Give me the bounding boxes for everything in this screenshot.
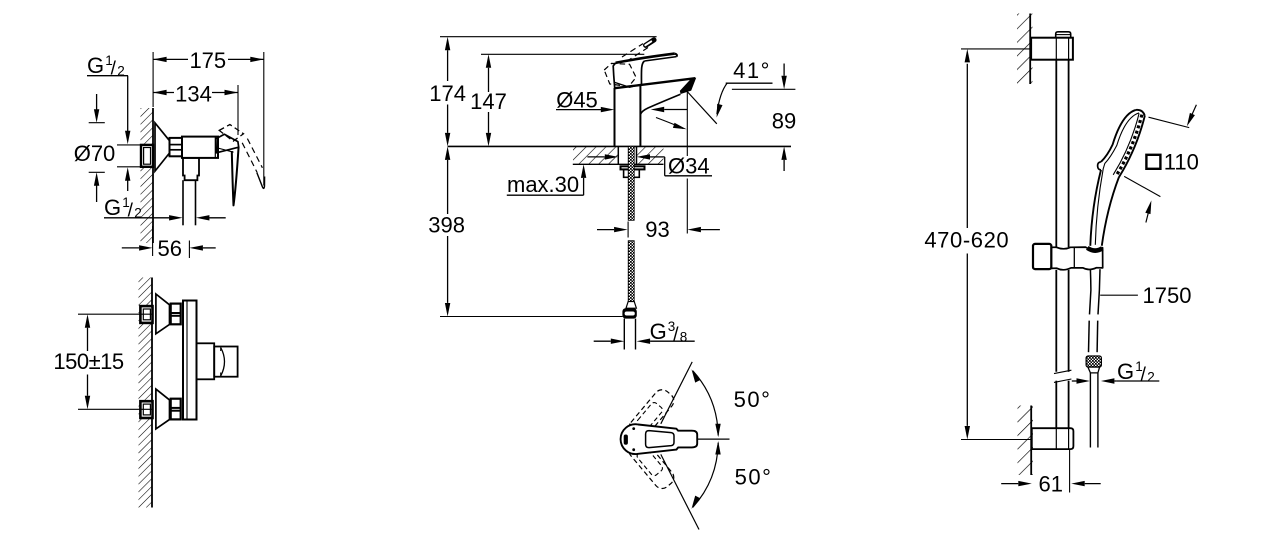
leader line down to inlet (127, 76, 129, 133)
square symbol for 110 (1146, 155, 1160, 169)
Ø70 lower arrow pointing up (96, 186, 98, 203)
flexible hose upper part (knurled) (628, 146, 634, 220)
dimension 174 arrow up (445, 37, 450, 51)
counter top surface line (448, 145, 791, 147)
handle alternate position dashed shaft lines (242, 143, 257, 173)
shower rail lower part (1055, 381, 1057, 429)
square inlet inner square (144, 148, 151, 165)
svg-text:1750: 1750 (1143, 283, 1192, 308)
small dark mark on handle cap (624, 435, 627, 444)
upper wall face line (1029, 14, 1031, 85)
dashed open-position cap polygon (604, 63, 636, 86)
max.30 arrow up at counter underside (581, 164, 586, 178)
diverter knob (214, 347, 237, 377)
extension line right for 134 (237, 85, 239, 135)
swivel arc with arrowhead below spout (656, 118, 683, 129)
50 deg upper ray (661, 362, 692, 424)
G 1/2 underline (1116, 380, 1159, 382)
upper hex nut (171, 304, 181, 325)
svg-text:2: 2 (1147, 370, 1155, 385)
spray face nozzle dash band (1116, 115, 1142, 176)
hose knurled nut (1086, 356, 1101, 367)
svg-text:G: G (650, 319, 667, 344)
lever cap face lines (615, 82, 641, 87)
escutcheon cone (side view) (155, 123, 170, 171)
svg-text:/: / (673, 324, 679, 345)
wall face line (front view) (151, 278, 153, 508)
spout underside curve (640, 94, 680, 114)
89 dimension arrow up at counter (781, 146, 786, 160)
svg-text:134: 134 (175, 81, 212, 106)
svg-text:110: 110 (1164, 149, 1199, 174)
dimension 61 arrows (1001, 483, 1018, 485)
handle cap inner line (216, 148, 233, 153)
svg-text:89: 89 (772, 109, 796, 134)
svg-text:/: / (1141, 365, 1147, 386)
hose nut cone (1088, 367, 1100, 373)
pivot dot lower (632, 448, 635, 451)
underline / arrow shaft of bottom G 1/2 (104, 217, 169, 219)
slider grip dark arc (1087, 248, 1102, 251)
dimension 93 left arrow (597, 229, 614, 231)
470-620 dimension arrows and line (965, 49, 970, 63)
dimension 150±15 line upper part with arrow up (85, 314, 90, 328)
dimension 134 line (153, 92, 174, 94)
svg-text:398: 398 (428, 212, 465, 237)
svg-text:G: G (87, 53, 104, 78)
dashed lever rotated down 50 deg (626, 436, 677, 492)
lower 50 deg arc (693, 443, 718, 508)
lower arc arrowheads (692, 496, 701, 509)
svg-text:150±15: 150±15 (53, 349, 124, 374)
counter bottom line (573, 163, 664, 165)
hand shower head top arc (1136, 110, 1145, 116)
square 110 dimension extension line lower (1124, 176, 1160, 196)
41 degree inclined ray (687, 92, 717, 124)
50 deg lower ray (661, 454, 699, 529)
Ø34 leader lines (664, 157, 666, 176)
mixer body cylinder (182, 137, 218, 158)
square 110 lower arrow (1146, 212, 1149, 223)
arrowhead left of 175 (153, 57, 167, 62)
rail break marks (1054, 370, 1071, 373)
pivot dot upper (632, 427, 635, 430)
shower rail middle part (1055, 270, 1057, 372)
slider left knob (1033, 244, 1051, 269)
arrow pointing right at faucet body left edge (601, 107, 615, 112)
alternate handle tip hook (257, 173, 265, 189)
extension line top (174) to raised lever tip (440, 36, 657, 38)
lever top edge (616, 54, 675, 63)
dashed raised lever shaft lines (622, 44, 643, 57)
svg-text:50°: 50° (734, 387, 772, 412)
arrowhead left of 134 (153, 90, 167, 95)
lock nut under counter (624, 169, 640, 177)
extension line (147) to lever top (481, 53, 644, 55)
Ø70 extension line bottom (89, 171, 105, 173)
rail top cap (1056, 32, 1071, 38)
arrow pointing down at inlet top (125, 131, 130, 145)
lower escutcheon cone (156, 389, 170, 429)
89 dimension arrow down (783, 64, 785, 76)
G 3/8 arrows (594, 340, 611, 342)
dimension 93 right arrow (687, 227, 701, 232)
svg-text:175: 175 (189, 48, 226, 73)
lower wall section hatching (1018, 406, 1034, 476)
outlet pipe lines going down (182, 180, 184, 225)
slider divider line (1073, 248, 1075, 268)
lower wall face line (1030, 406, 1032, 476)
lever underside (645, 57, 677, 61)
spray selector button (1098, 162, 1101, 170)
flexible hose lower part (knurled) (628, 241, 634, 302)
svg-text:G: G (104, 195, 121, 220)
label 1750 leader line (1100, 294, 1138, 296)
slider body (1051, 247, 1102, 270)
threaded shank right edge in counter (636, 146, 638, 164)
horizontal centerline at handle tip (697, 438, 729, 440)
faucet body left edge (614, 88, 616, 146)
Ø70 upper arrow pointing down (96, 94, 98, 110)
svg-text:max.30: max.30 (507, 172, 579, 197)
hand shower spray face edge (1119, 116, 1145, 177)
spray face inner line (1113, 113, 1139, 174)
lever neck curve down to spout (641, 61, 644, 84)
arrowhead right of 134 (225, 90, 239, 95)
leader underline for top G 1/2 (87, 75, 128, 77)
dimension 147 arrow up (486, 54, 491, 68)
counter cross-section hatching right of shank (637, 146, 664, 164)
svg-text:Ø70: Ø70 (74, 141, 116, 166)
handle inner window (646, 431, 674, 448)
svg-text:470-620: 470-620 (924, 227, 1009, 252)
lever cap left edge (613, 63, 615, 88)
arrowhead at pipe centerline for 56 (189, 245, 203, 250)
handle pivot cap (solid) (216, 134, 239, 153)
diverter boss (197, 343, 215, 379)
upper escutcheon cone (156, 294, 170, 334)
hose centerline tick for 93 (627, 222, 629, 238)
wall section (side view) with hatching (141, 108, 154, 243)
arrow pointing left at spout underside (41 deg construction) (651, 107, 665, 112)
handle top view solid outline (621, 424, 698, 454)
arrowhead at wall face for 56 (139, 245, 153, 250)
spout top edge (615, 78, 696, 88)
hose break and lower part (1088, 321, 1091, 353)
svg-text:93: 93 (645, 217, 669, 242)
41 degree arc with arrowhead (717, 83, 727, 114)
hose from slider down (1090, 270, 1091, 315)
inlet square extension line top (117, 144, 153, 146)
Ø34 arrow pointing left at shank (637, 154, 651, 159)
diverter knob curve (221, 348, 225, 377)
rail lines inside upper bracket (1055, 38, 1057, 60)
threaded shank left edge in counter (617, 146, 619, 164)
470-620 top extension line (961, 48, 1030, 50)
vertical extension line from aerator down (93 dim) (686, 92, 688, 156)
handle alternate position dashed cap (219, 125, 243, 142)
G 3/8 connection nut (622, 308, 636, 318)
Ø70 extension line top (89, 122, 105, 124)
washer under counter (621, 166, 645, 169)
41 degree underline (726, 82, 773, 84)
hex connection nut (170, 138, 183, 156)
head and handle inner contour line (1095, 113, 1139, 245)
svg-text:8: 8 (680, 329, 688, 344)
handle lever blade (hanging down) (232, 147, 239, 206)
shower rail upper part (1055, 60, 1057, 247)
rail lines through lower bracket (1055, 428, 1057, 449)
arrow pointing up at inlet bottom (127, 180, 129, 191)
svg-text:G: G (1117, 359, 1134, 384)
dimension 398 arrow up at counter (445, 146, 450, 160)
counter cross-section hatching left of shank (573, 146, 618, 164)
body end cap line (214, 137, 216, 158)
svg-text:Ø34: Ø34 (668, 153, 710, 178)
upper arc arrowheads (692, 369, 701, 382)
dimension 175 line (153, 58, 188, 60)
upper wall bracket (1031, 38, 1073, 60)
rail top cap inner line (1056, 34, 1071, 36)
square inlet fitting in wall (141, 145, 153, 167)
dimension 56 line left part (122, 247, 139, 249)
square 110 dimension extension line upper (1149, 117, 1190, 127)
svg-text:56: 56 (158, 236, 182, 261)
dimension 147 arrow down at counter (488, 112, 490, 133)
handle left edge down to slider (1090, 170, 1101, 246)
extension line below bracket right edge (1069, 449, 1071, 492)
wall face extension line for 56 (152, 226, 154, 256)
arrowhead right of 175 (250, 57, 263, 62)
hose end cone (626, 302, 636, 309)
centerline upper inlet (78, 313, 152, 315)
dashed lever rotated up 50 deg (626, 386, 677, 442)
dimension 398 arrow down (447, 236, 449, 303)
svg-text:50°: 50° (735, 464, 773, 489)
wall section (front view) with hatching (139, 278, 153, 508)
G 1/2 arrows (1072, 380, 1077, 382)
mixer body (front view) (183, 301, 197, 420)
hand shower head back edge (1101, 110, 1136, 162)
89 top extension line (732, 88, 796, 90)
upper wall section hatching (1017, 14, 1033, 85)
arrow pointing left at pipe right edge (209, 217, 226, 219)
470-620 bottom extension line (961, 439, 1032, 441)
svg-text:/: / (128, 201, 134, 222)
Ø34 arrow pointing right at shank (587, 156, 604, 158)
svg-text:Ø45: Ø45 (556, 87, 598, 112)
inlet square extension line bottom (117, 166, 153, 168)
handle right edge down to slider (1102, 177, 1119, 246)
hex nut facet lines (170, 144, 183, 146)
wall face line (152, 108, 154, 243)
extension line right for 175 (263, 52, 265, 186)
G 3/8 pipe below nut (623, 319, 625, 350)
spout tip and aerator dark wedge (680, 78, 696, 94)
lever tip rounding (675, 54, 677, 57)
upper 50 deg arc (693, 371, 718, 436)
pipe centerline extension below (188, 241, 190, 259)
outlet block below body (183, 158, 199, 180)
svg-text:41°: 41° (733, 58, 771, 83)
extension line bottom of 398 at hose end (440, 316, 623, 318)
lower square inlet (140, 401, 152, 418)
connection pipe below nut (1089, 373, 1091, 448)
lower wall bracket (1032, 428, 1074, 449)
square 110 upper arrow (1191, 105, 1196, 116)
svg-text:61: 61 (1038, 472, 1062, 497)
dimension 150±15 line lower part with arrow down (87, 375, 89, 396)
svg-text:147: 147 (470, 89, 507, 114)
svg-text:174: 174 (429, 81, 466, 106)
centerline lower inlet (78, 408, 152, 410)
arrow pointing right at pipe left edge (169, 215, 183, 220)
faucet body right edge (639, 84, 641, 146)
extension line left for 175/134 (152, 52, 154, 107)
upper square inlet (140, 306, 152, 323)
lower hex nut (171, 399, 181, 420)
dimension 174 arrow down at counter (447, 105, 449, 133)
body inner line (186, 301, 188, 420)
raised lever solid tip (642, 36, 657, 49)
